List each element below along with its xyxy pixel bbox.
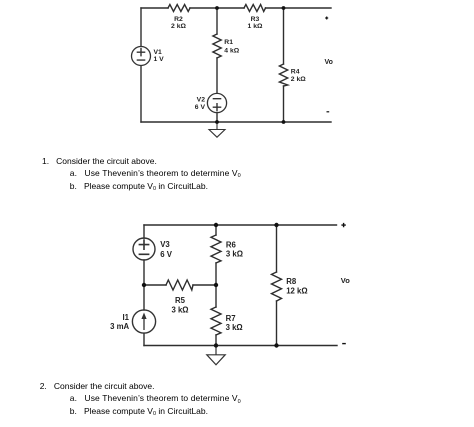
wire circuit2 bottom rail [144,345,337,347]
voltage source V3 [133,238,155,260]
svg-text:4 kΩ: 4 kΩ [224,47,239,54]
svg-text:V3: V3 [160,240,170,249]
svg-text:3 kΩ: 3 kΩ [226,250,243,259]
wire circuit2 top rail [144,224,337,226]
node dot circuit2 R5 left [142,283,146,287]
svg-text:R2: R2 [174,16,183,23]
svg-text:3 mA: 3 mA [110,322,129,331]
wire circuit2 right branch [276,225,278,272]
node plus circuit2 output [341,223,345,227]
wire circuit1 bottom rail [141,121,331,123]
node dot circuit2 top-middle [214,223,218,227]
svg-text:V2: V2 [197,96,206,103]
svg-text:R1: R1 [224,39,233,46]
wire circuit2 R5 row [144,284,166,286]
current source I1 [132,310,155,333]
voltage source V1 [132,47,151,66]
svg-text:R3: R3 [251,16,260,23]
node plus circuit1 output [325,17,328,20]
wire circuit1 left branch [140,8,142,47]
node minus circuit1 output [327,111,330,113]
resistor R8 [272,272,282,301]
wire circuit2 middle branch [215,225,217,235]
svg-text:R4: R4 [291,69,300,76]
resistor R3 [244,5,266,12]
svg-text:Vo: Vo [325,59,333,66]
svg-text:I1: I1 [122,313,129,322]
ground circuit1 [209,122,225,137]
svg-text:2 kΩ: 2 kΩ [171,23,186,30]
node dot circuit2 R5 right [214,283,218,287]
svg-text:6 V: 6 V [195,104,206,111]
svg-text:12 kΩ: 12 kΩ [286,286,307,295]
resistor R5 [166,280,193,290]
node dot circuit1 bottom-middle [215,120,219,124]
svg-text:R5: R5 [175,296,186,305]
node dot circuit2 bottom-middle [214,343,218,347]
resistor R4 [279,64,287,86]
ground circuit2 [207,346,225,365]
node dot circuit1 bottom-right [282,120,286,124]
svg-text:1 V: 1 V [154,56,165,63]
svg-text:R6: R6 [226,240,237,249]
problem 1 text [42,156,157,166]
svg-text:Vo: Vo [341,276,350,285]
wire circuit1 right branch [283,8,285,64]
svg-text:3 kΩ: 3 kΩ [171,305,188,314]
node dot circuit1 top-middle [215,6,219,10]
resistor R1 [213,34,221,58]
svg-text:2 kΩ: 2 kΩ [291,76,306,83]
svg-text:6 V: 6 V [160,250,173,259]
wire circuit1 top rail [141,7,168,9]
voltage source V2 [207,93,226,112]
node minus circuit2 output [342,343,346,345]
svg-text:3 kΩ: 3 kΩ [226,323,243,332]
node dot circuit2 bottom-right [274,343,278,347]
svg-text:V1: V1 [154,49,163,56]
node dot circuit1 top-right [282,6,286,10]
resistor R6 [211,235,221,263]
svg-text:R8: R8 [286,277,297,286]
resistor R2 [168,5,190,12]
node dot circuit2 top-right [274,223,278,227]
wire circuit1 middle branch [216,8,218,34]
wire circuit2 left branch [143,225,145,238]
resistor R7 [211,307,221,335]
problem 2 text [40,381,155,391]
svg-text:1 kΩ: 1 kΩ [248,23,263,30]
